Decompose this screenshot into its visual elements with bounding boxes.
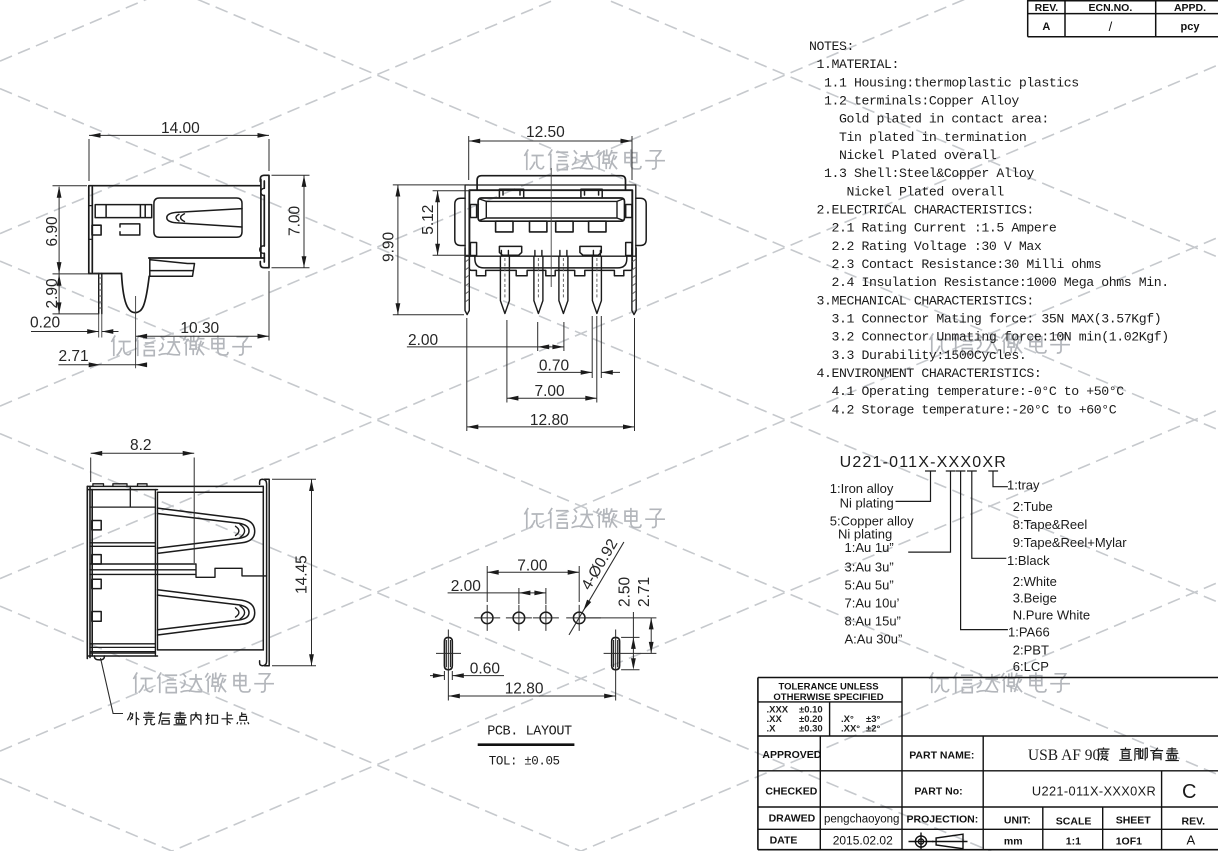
svg-text:N.Pure White: N.Pure White	[1013, 608, 1090, 623]
side view mounting leg	[122, 274, 150, 313]
svg-text:2:White: 2:White	[1013, 574, 1057, 589]
top view small windows	[92, 521, 101, 530]
top view rear section divider	[155, 490, 157, 656]
side view bracket notch	[120, 224, 140, 235]
watermark text instances	[111, 149, 1070, 693]
svg-text:0.60: 0.60	[470, 661, 501, 678]
fork slot	[167, 209, 242, 227]
svg-text:U221-011X-XXX0XR: U221-011X-XXX0XR	[840, 454, 1007, 471]
tree connector: plating	[908, 471, 950, 552]
svg-text:A: A	[1042, 21, 1050, 33]
svg-text:APPD.: APPD.	[1174, 2, 1206, 14]
dimension 8.2	[91, 453, 195, 563]
svg-text:ECN.NO.: ECN.NO.	[1089, 2, 1133, 14]
svg-text:1:tray: 1:tray	[1007, 478, 1040, 493]
svg-text:REV.: REV.	[1182, 816, 1206, 828]
svg-text:Nickel Plated overall: Nickel Plated overall	[839, 148, 997, 163]
svg-text:7.00: 7.00	[287, 205, 304, 236]
title block vertical lines	[820, 678, 1161, 850]
svg-text:1OF1: 1OF1	[1116, 836, 1142, 848]
tree connector: color	[972, 471, 1007, 558]
svg-text:SHEET: SHEET	[1116, 815, 1152, 827]
right option list	[1007, 478, 1127, 674]
top view upper spring	[158, 508, 255, 553]
front view bottom skirt outer	[469, 256, 632, 276]
front view rear cover top	[477, 176, 625, 190]
dimension 2.90	[53, 274, 100, 314]
svg-text:Ni plating: Ni plating	[840, 496, 894, 511]
svg-text:8:Tape&Reel: 8:Tape&Reel	[1013, 517, 1088, 532]
slot inner bevel	[480, 199, 623, 220]
fork tip curls	[176, 214, 185, 222]
dimension 14.00	[89, 135, 269, 181]
watermark text instance 5 (bottom left)	[133, 672, 274, 693]
svg-text:C: C	[1182, 781, 1196, 803]
svg-text:4-Ø0.92: 4-Ø0.92	[578, 536, 621, 593]
svg-text:DRAWED: DRAWED	[769, 813, 816, 825]
svg-text:2.4 Insulation Resistance:1000: 2.4 Insulation Resistance:1000 Mega ohms…	[832, 275, 1169, 290]
svg-text:7.00: 7.00	[535, 383, 566, 400]
pcb dimension 2.50	[621, 612, 639, 670]
svg-text:12.50: 12.50	[526, 124, 565, 141]
pcb dimension 7.00	[487, 566, 579, 602]
svg-text:PART No:: PART No:	[914, 786, 962, 798]
svg-text:1:Black: 1:Black	[1007, 553, 1050, 568]
svg-text:.XX°: .XX°	[841, 724, 860, 735]
svg-text:1.3 Shell:Steel&Copper Alloy: 1.3 Shell:Steel&Copper Alloy	[824, 166, 1034, 181]
front view bottom skirt inner rounded	[475, 256, 627, 268]
projection symbol	[909, 833, 968, 851]
dimension 2.71	[58, 364, 147, 366]
svg-text:5.12: 5.12	[420, 205, 437, 235]
svg-text:2.00: 2.00	[408, 332, 439, 349]
watermark text instance 3 (right)	[929, 333, 1070, 354]
svg-text:±2°: ±2°	[866, 724, 880, 735]
front view pin 2	[534, 251, 543, 314]
side view body outline	[89, 179, 264, 273]
svg-text:2:PBT: 2:PBT	[1013, 643, 1049, 658]
svg-text:mm: mm	[1004, 836, 1023, 848]
svg-text:1.MATERIAL:: 1.MATERIAL:	[817, 57, 899, 72]
svg-text:8.2: 8.2	[130, 437, 152, 454]
snap point label: wai-ke-hou-gai-nei-kou-ka-dian	[127, 712, 249, 726]
svg-text:12.80: 12.80	[530, 412, 569, 429]
svg-text:5:Au 5u”: 5:Au 5u”	[845, 577, 894, 592]
pcb dimension 12.80	[448, 695, 615, 697]
side view top inner bar	[95, 205, 152, 218]
svg-text:Tin plated in termination: Tin plated in termination	[839, 130, 1026, 145]
svg-text:.X: .X	[767, 724, 777, 735]
side view bottom tongue	[149, 258, 194, 276]
svg-text:2.3 Contact Resistance:30 Mill: 2.3 Contact Resistance:30 Milli ohms	[832, 257, 1102, 272]
dimension 12.80 (front)	[467, 318, 635, 431]
top view left plate	[87, 486, 92, 658]
svg-text:1:1: 1:1	[1066, 836, 1081, 848]
front view inner shell rect	[469, 190, 632, 256]
top view snap nub	[94, 656, 104, 660]
side view pin extension lines	[99, 296, 136, 368]
svg-text:APPROVED: APPROVED	[762, 749, 821, 761]
svg-text:1:Au 1u”: 1:Au 1u”	[845, 540, 894, 555]
svg-text:3.Beige: 3.Beige	[1013, 590, 1057, 605]
flange notch bumps	[260, 188, 265, 253]
top view middle tongue	[90, 564, 267, 577]
svg-text:12.80: 12.80	[505, 681, 544, 698]
svg-text:2.2 Rating Voltage :30 V Max: 2.2 Rating Voltage :30 V Max	[832, 239, 1042, 254]
pcb dimension 2.00	[448, 588, 546, 604]
svg-text:PCB. LAYOUT: PCB. LAYOUT	[487, 725, 572, 740]
dimension 5.12	[433, 191, 470, 256]
pcb ext line hole row	[585, 617, 656, 619]
tree connector: shell material	[896, 471, 931, 501]
front view right shell leg	[632, 248, 636, 315]
svg-text:pcy: pcy	[1181, 21, 1201, 33]
svg-text:3.1 Connector Mating force: 35: 3.1 Connector Mating force: 35N MAX(3.57…	[832, 312, 1162, 327]
upper spring tip curls	[236, 524, 245, 537]
tree connector: housing material	[961, 471, 1008, 630]
svg-text:1:Iron alloy: 1:Iron alloy	[830, 481, 894, 496]
left option list	[830, 481, 914, 646]
svg-text:2.90: 2.90	[44, 278, 61, 309]
side view contact fork	[154, 198, 242, 237]
front view top window tabs	[499, 189, 602, 197]
top view lower spring	[158, 590, 255, 635]
dimension 14.45	[272, 479, 316, 666]
svg-text:±0.30: ±0.30	[799, 724, 823, 735]
svg-text:0.70: 0.70	[539, 358, 570, 375]
svg-text:3:Au 3u”: 3:Au 3u”	[845, 559, 894, 574]
side view left plate ticks	[89, 206, 93, 240]
svg-text:9:Tape&Reel+Mylar: 9:Tape&Reel+Mylar	[1013, 535, 1127, 550]
dimension 0.70	[537, 316, 620, 378]
svg-text:4.2 Storage temperature:-20°C: 4.2 Storage temperature:-20°C to +60°C	[832, 402, 1117, 417]
svg-text:OTHERWISE SPECIFIED: OTHERWISE SPECIFIED	[773, 692, 883, 703]
svg-text:PROJECTION:: PROJECTION:	[907, 814, 979, 826]
front view pin 3	[559, 251, 568, 314]
watermark text instance 1 (left)	[111, 335, 252, 356]
pcb right slot	[612, 637, 620, 669]
dimension 6.90	[53, 186, 102, 274]
front view lower tabs	[499, 246, 601, 255]
svg-text:3.MECHANICAL CHARACTERISTICS:: 3.MECHANICAL CHARACTERISTICS:	[817, 293, 1034, 308]
title block outer border	[758, 678, 1218, 850]
svg-text:TOL: ±0.05: TOL: ±0.05	[489, 755, 560, 769]
svg-text:2.71: 2.71	[59, 348, 89, 365]
svg-text:2.50: 2.50	[617, 576, 634, 607]
dimension 7.00 (side)	[272, 175, 310, 267]
snap point leader line	[101, 658, 124, 714]
pin hatch lines	[505, 258, 597, 299]
svg-text:Gold plated in contact area:: Gold plated in contact area:	[839, 112, 1049, 127]
top view body right edge	[262, 486, 264, 650]
svg-text:10.30: 10.30	[180, 320, 219, 337]
svg-text:2.1 Rating Current :1.5 Ampere: 2.1 Rating Current :1.5 Ampere	[832, 221, 1057, 236]
svg-text:1:PA66: 1:PA66	[1008, 625, 1050, 640]
top view bottom edges	[87, 650, 263, 656]
front view pin 4	[592, 251, 601, 314]
front view outer shell rect	[465, 185, 636, 256]
front view pin 1	[500, 251, 509, 314]
front view USB slot opening	[478, 198, 624, 221]
front view side windows	[470, 205, 476, 218]
svg-text:2.00: 2.00	[451, 578, 482, 595]
pcb hole callout 4-dia0.92	[569, 542, 624, 635]
svg-text:A: A	[1187, 833, 1196, 848]
front view centerline	[550, 168, 552, 287]
top view right flange plate	[260, 479, 270, 665]
svg-text:0.20: 0.20	[30, 315, 61, 332]
side view solder pin	[99, 274, 102, 314]
svg-text:7:Au 10u’: 7:Au 10u’	[845, 595, 900, 610]
pcb hole 2	[513, 612, 525, 624]
svg-text:REV.: REV.	[1035, 2, 1059, 14]
watermark text instance 6 (bottom right)	[929, 672, 1070, 693]
dimension 10.30	[136, 271, 269, 341]
svg-text:SCALE: SCALE	[1056, 816, 1092, 828]
svg-text:U221-011X-XXX0XR: U221-011X-XXX0XR	[1032, 784, 1156, 799]
svg-text:2.71: 2.71	[636, 577, 653, 607]
watermark text instance 4 (center)	[524, 508, 665, 529]
svg-text:1.1 Housing:thermoplastic plas: 1.1 Housing:thermoplastic plastics	[824, 75, 1079, 90]
pcb hole 1	[481, 612, 493, 624]
tolerance values	[767, 705, 881, 735]
dimension 0.20	[31, 331, 119, 333]
dimension 2.00 (front)	[407, 322, 564, 351]
front view left shell leg	[465, 248, 469, 315]
svg-text:A:Au 30u”: A:Au 30u”	[845, 631, 903, 646]
svg-text:2.ELECTRICAL CHARACTERISTICS:: 2.ELECTRICAL CHARACTERISTICS:	[817, 203, 1034, 218]
svg-text:3.2 Connector Unmating force:1: 3.2 Connector Unmating force:10N min(1.0…	[832, 330, 1169, 345]
front view side ears	[455, 198, 646, 245]
watermark text instance 2 (top center)	[524, 149, 665, 170]
tree connector: packing	[993, 471, 1008, 487]
svg-text:Nickel Plated overall: Nickel Plated overall	[847, 184, 1005, 199]
svg-text:2015.02.02: 2015.02.02	[833, 834, 893, 848]
svg-text:USB AF 90: USB AF 90	[1028, 747, 1101, 764]
char underline ticks	[925, 470, 998, 472]
svg-text:1.2 terminals:Copper Alloy: 1.2 terminals:Copper Alloy	[824, 94, 1019, 109]
svg-text:7.00: 7.00	[517, 558, 548, 575]
svg-text:14.00: 14.00	[161, 120, 200, 137]
dimension 9.90	[393, 185, 469, 315]
pcb dimension 2.71	[650, 618, 652, 654]
svg-text:14.45: 14.45	[294, 555, 311, 594]
top view body top edge	[87, 486, 263, 492]
lower spring tip curls	[236, 606, 245, 619]
pcb hole 4	[573, 612, 585, 624]
top view rear comb lines	[90, 486, 155, 651]
svg-text:CHECKED: CHECKED	[765, 786, 817, 798]
svg-text:8:Au 15u”: 8:Au 15u”	[845, 613, 901, 628]
svg-text:4.1 Operating temperature:-0°C: 4.1 Operating temperature:-0°C to +50°C	[832, 384, 1125, 399]
pcb dimension 0.60	[430, 671, 504, 680]
front view contact windows	[496, 221, 513, 232]
pcb left slot	[444, 637, 452, 669]
svg-text:9.90: 9.90	[381, 231, 398, 262]
svg-text:/: /	[1109, 19, 1113, 34]
title block horizontal lines	[758, 702, 1218, 829]
svg-text:2:Tube: 2:Tube	[1013, 499, 1053, 514]
svg-text:TOLERANCE UNLESS: TOLERANCE UNLESS	[778, 682, 878, 693]
svg-text:UNIT:: UNIT:	[1004, 815, 1031, 827]
side view small square window	[92, 225, 101, 235]
svg-text:DATE: DATE	[770, 835, 798, 847]
svg-text:3.3 Durability:1500Cycles.: 3.3 Durability:1500Cycles.	[832, 348, 1027, 363]
dimension 12.50	[469, 136, 632, 180]
top view top edge bumps	[93, 484, 147, 487]
svg-text:4.ENVIRONMENT CHARACTERISTICS:: 4.ENVIRONMENT CHARACTERISTICS:	[817, 366, 1042, 381]
svg-text:PART NAME:: PART NAME:	[909, 750, 974, 762]
svg-text:NOTES:: NOTES:	[809, 39, 854, 54]
svg-text:6.90: 6.90	[44, 216, 61, 247]
side view right flange plate	[260, 175, 269, 267]
svg-text:pengchaoyong: pengchaoyong	[824, 814, 899, 826]
svg-text:6:LCP: 6:LCP	[1013, 659, 1049, 674]
pcb hole 3	[540, 612, 552, 624]
dimension 7.00 (front)	[507, 316, 597, 403]
